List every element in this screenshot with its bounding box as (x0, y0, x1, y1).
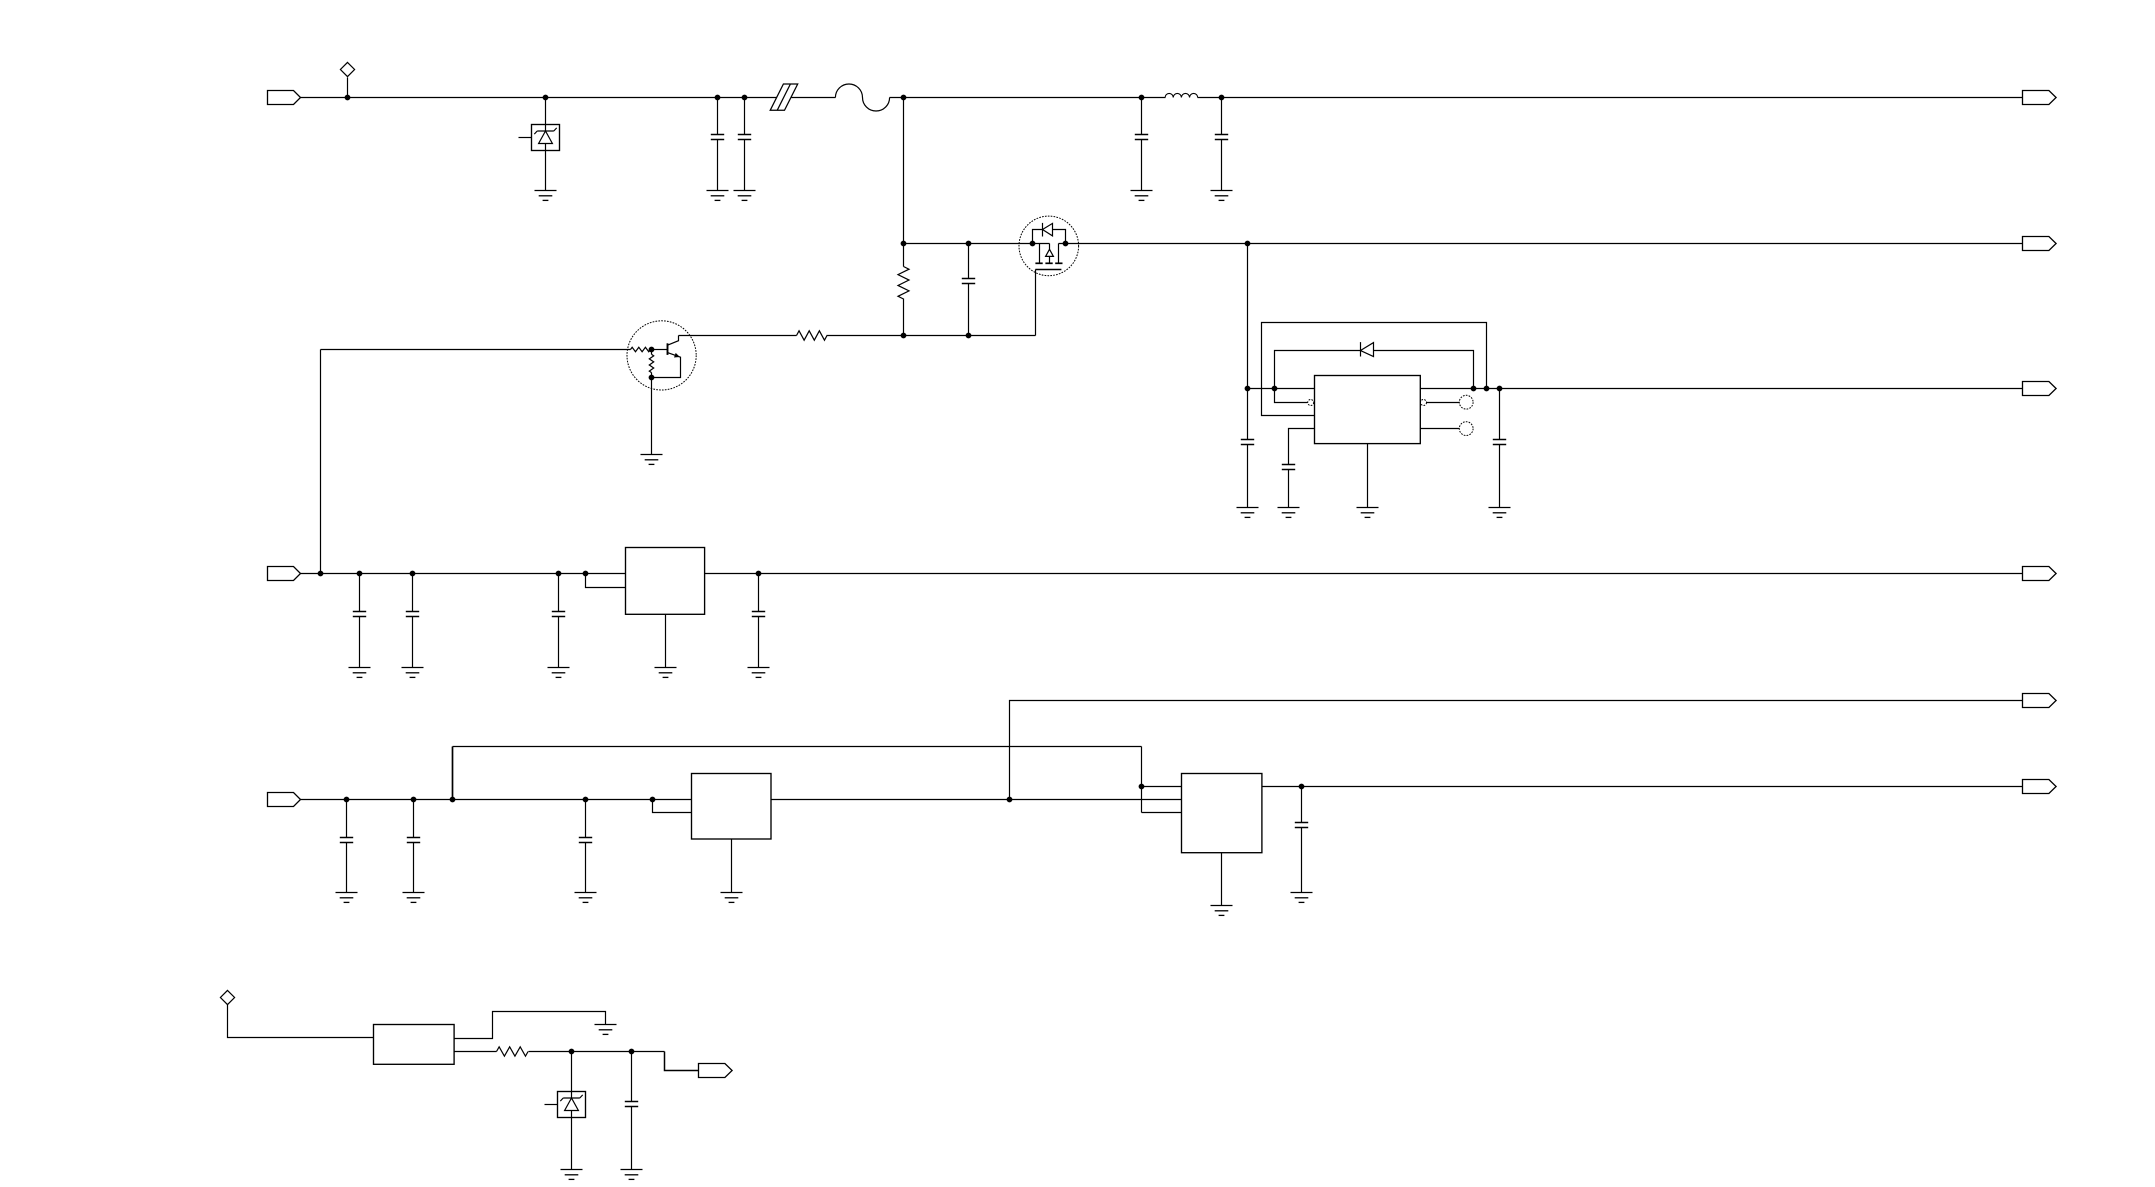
wire row4 feed (1010, 701, 2023, 800)
wire R1 top lead (903, 244, 905, 267)
wire Q1 gate lead (1035, 270, 1037, 336)
wire to test point TP1 (1427, 402, 1460, 404)
junction (1484, 386, 1490, 392)
net flag sense input (220, 990, 234, 1004)
capacitor C14 (407, 800, 420, 893)
wire D3 bottom lead (571, 1118, 573, 1170)
wire VIN segment B (792, 97, 836, 99)
test point TP2 (1459, 422, 1473, 436)
connector J5 (row3 input) (268, 567, 301, 581)
ground (734, 191, 756, 201)
wire BJT base row (321, 349, 631, 351)
wire U2 ground pin (665, 615, 667, 668)
wire flag to U5 (228, 1005, 374, 1038)
ground (1489, 508, 1511, 518)
resistor R1 (898, 267, 909, 300)
junction (583, 797, 589, 803)
wire left riser to row3 (320, 350, 322, 574)
wire U5 pinA to ground (455, 1012, 606, 1039)
junction (715, 95, 721, 101)
U1 inverting pin circle left (1308, 400, 1314, 406)
wire Q2 emitter to ground (651, 378, 653, 455)
ground (1131, 191, 1153, 201)
wire VIN segment A (301, 97, 777, 99)
IC U1 (1315, 376, 1421, 444)
junction (556, 571, 562, 577)
junction (450, 797, 456, 803)
wire enable line (453, 746, 1142, 748)
ground (336, 893, 358, 903)
junction (901, 333, 907, 339)
junction (569, 1049, 575, 1055)
connector J4 (row IC1 output) (2023, 382, 2057, 396)
IC U3 (692, 774, 772, 840)
junction (1299, 784, 1305, 790)
ground (1291, 893, 1313, 903)
capacitor C16 (1295, 787, 1308, 893)
junction (966, 241, 972, 247)
wire net flag stem (347, 78, 349, 98)
wire VIN drop to MOSFET rail (903, 98, 905, 244)
capacitor C12 (752, 574, 765, 668)
junction (901, 95, 907, 101)
ground (1278, 508, 1300, 518)
net flag VIN (340, 62, 354, 76)
U1 inverting pin circle right (1421, 400, 1427, 406)
resistor R2 (797, 331, 828, 340)
junction (1139, 784, 1145, 790)
TVS diode D3 (545, 1092, 586, 1118)
capacitor C1 (711, 98, 724, 191)
junction (1007, 797, 1013, 803)
junction (543, 95, 549, 101)
transistor Q1 (P-MOSFET) (1019, 216, 1079, 276)
wire U3 ground pin (731, 840, 733, 893)
diode D1 (1361, 342, 1374, 357)
capacitor C9 (353, 574, 366, 668)
wire row5 output rail (1262, 786, 2023, 788)
IC U5 (filter) (374, 1025, 455, 1065)
junction (649, 347, 655, 353)
ground (1357, 508, 1379, 518)
connector J9 (row5 output) (2023, 780, 2057, 794)
ground (748, 668, 770, 678)
wire row5 rail left (301, 799, 692, 801)
ground (403, 893, 425, 903)
connector J10 (sense output) (699, 1064, 733, 1078)
wire to test point TP2 (1421, 428, 1460, 430)
ground (535, 191, 557, 201)
wire IC1 rail left (1248, 388, 1315, 390)
wire row3 rail right (705, 573, 2023, 575)
capacitor C8 (1493, 389, 1506, 508)
wire to U4 pin1 (1142, 786, 1182, 788)
junction (1245, 386, 1251, 392)
wire row3 enable step (586, 574, 626, 588)
ground (561, 1170, 583, 1180)
connector J8 (row4 output) (2023, 694, 2057, 708)
junction (318, 571, 324, 577)
junction (583, 571, 589, 577)
junction (1497, 386, 1503, 392)
junction (344, 797, 350, 803)
junction (1245, 241, 1251, 247)
wire drain rail drop to IC1 (1247, 244, 1249, 389)
wire to U1 inverted pin left (1275, 389, 1308, 403)
wire D2 top lead (545, 98, 547, 125)
connector J7 (row5 input) (268, 793, 301, 807)
capacitor C2 (738, 98, 751, 191)
wire inner loop left (1275, 351, 1361, 389)
ground (707, 191, 729, 201)
wire R2 to Q1 gate (827, 335, 1036, 337)
junction (649, 375, 655, 381)
wire U4 ground pin (1221, 853, 1223, 906)
ground (1211, 191, 1233, 201)
wire IC1 rail right (1421, 388, 2023, 390)
junction (901, 241, 907, 247)
connector J3 (row2 output) (2023, 237, 2057, 251)
ground (721, 893, 743, 903)
wire bottom row (529, 1051, 665, 1053)
ground (349, 668, 371, 678)
wire row5 step to U3 (653, 800, 692, 813)
wire collector to R2 (679, 335, 797, 337)
ground (402, 668, 424, 678)
wire jog to J10 (665, 1052, 699, 1071)
junction (629, 1049, 635, 1055)
wire MOSFET drain rail (1059, 243, 2023, 245)
capacitor C11 (552, 574, 565, 668)
fuse F1 (835, 84, 889, 111)
capacitor C15 (579, 800, 592, 893)
wire U1 ground pin (1367, 444, 1369, 508)
wire enable drop (1141, 747, 1143, 813)
capacitor C5 (962, 244, 975, 336)
wire VOUT row1 (1198, 97, 2023, 99)
ground (1237, 508, 1259, 518)
junction (357, 571, 363, 577)
capacitor C17 (625, 1052, 638, 1170)
wire U5 pinB out (455, 1051, 497, 1053)
connector J6 (row3 output) (2023, 567, 2057, 581)
wire D3 top lead (571, 1052, 573, 1092)
junction (966, 333, 972, 339)
ground (621, 1170, 643, 1180)
wire MOSFET source rail (904, 243, 1050, 245)
capacitor C6 (1241, 389, 1254, 508)
wire to U4 pin3 (1142, 812, 1182, 814)
ground (1211, 906, 1233, 916)
wire row3 rail left (301, 573, 626, 575)
IC U2 (LDO) (626, 548, 705, 615)
junction (410, 571, 416, 577)
junction (1139, 95, 1145, 101)
transistor Q2 (digital NPN) (627, 321, 696, 390)
junction (742, 95, 748, 101)
ground (575, 893, 597, 903)
capacitor C13 (340, 800, 353, 893)
junction (1471, 386, 1477, 392)
connector J2 (row1 output) (2023, 91, 2057, 105)
IC U4 (1182, 774, 1262, 853)
wire D2 bottom lead (545, 151, 547, 191)
junction (1272, 386, 1278, 392)
wire enable riser (452, 747, 454, 800)
capacitor C3 (1135, 98, 1148, 191)
ferrite bead FB1 (770, 84, 798, 110)
junction (345, 95, 351, 101)
junction (1030, 241, 1036, 247)
wire R1 bottom lead (903, 299, 905, 336)
wire VIN segment C (890, 97, 1166, 99)
wire row5 rail middle (772, 799, 1182, 801)
wire U1 pin4 to C7 (1289, 429, 1315, 465)
junction (756, 571, 762, 577)
wire outer loop (1262, 323, 1487, 416)
ground (655, 668, 677, 678)
inductor L1 (1165, 93, 1198, 97)
junction (1219, 95, 1225, 101)
junction (411, 797, 417, 803)
wire inner loop right (1374, 351, 1474, 389)
capacitor C7 (1282, 465, 1295, 508)
ground (595, 1025, 617, 1035)
ground (548, 668, 570, 678)
junction (1063, 241, 1069, 247)
capacitor C10 (406, 574, 419, 668)
resistor R3 (497, 1047, 529, 1056)
test point TP1 (1459, 395, 1473, 409)
connector J1 (power input) (268, 91, 301, 105)
junction (650, 797, 656, 803)
ground (641, 455, 663, 465)
TVS diode D2 (519, 125, 560, 151)
capacitor C4 (1215, 98, 1228, 191)
